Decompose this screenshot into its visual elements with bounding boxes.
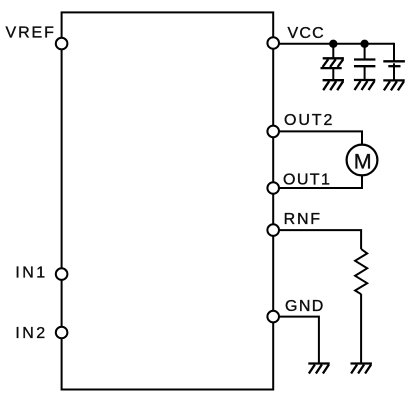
IC body outline [62,12,274,389]
wire VCC rail [278,43,394,45]
wire RNF to resistor [278,230,361,249]
pin OUT2 [267,126,279,138]
pin VREF [56,38,68,50]
wire OUT2 to motor [278,131,362,144]
wire GND to ground [278,317,319,363]
wire resistor to ground [360,294,362,363]
wire OUT1 to motor [278,175,362,188]
pin GND [267,311,279,323]
ground under GND pin [308,364,329,374]
capacitor C3 (polarized) [383,61,405,66]
motor M1 circle [347,145,378,176]
svg-text:M: M [354,150,372,174]
ground under C3 [383,80,404,90]
ground under C1 [323,80,344,90]
resistor R1 zigzag [355,249,367,294]
svg-text:GND: GND [285,298,325,315]
capacitor C2 [354,60,375,67]
pin VCC [267,37,279,49]
svg-text:OUT2: OUT2 [284,112,334,129]
wire branch C3 drop [393,43,395,61]
junction dot (C1 branch) [329,40,337,48]
ground under resistor [351,364,372,374]
svg-text:RNF: RNF [284,211,322,228]
junction dot (C2 branch) [360,40,368,48]
pin RNF [267,224,279,236]
wire C2 to ground [364,67,366,79]
wire C3 lead to ground [393,63,395,79]
wire branch C1 drop [332,44,334,58]
ground under C2 [354,80,375,90]
svg-text:VREF: VREF [6,25,56,42]
capacitor C1 (hatched electrolytic) [321,58,344,68]
pin OUT1 [267,182,279,194]
svg-text:IN2: IN2 [15,325,47,342]
svg-text:VCC: VCC [288,25,325,42]
pin IN1 [56,268,68,280]
pin IN2 [56,327,68,339]
wire C1 to ground [332,69,334,80]
svg-text:OUT1: OUT1 [283,172,331,189]
wire branch C2 drop [364,44,366,59]
svg-text:IN1: IN1 [15,264,47,281]
